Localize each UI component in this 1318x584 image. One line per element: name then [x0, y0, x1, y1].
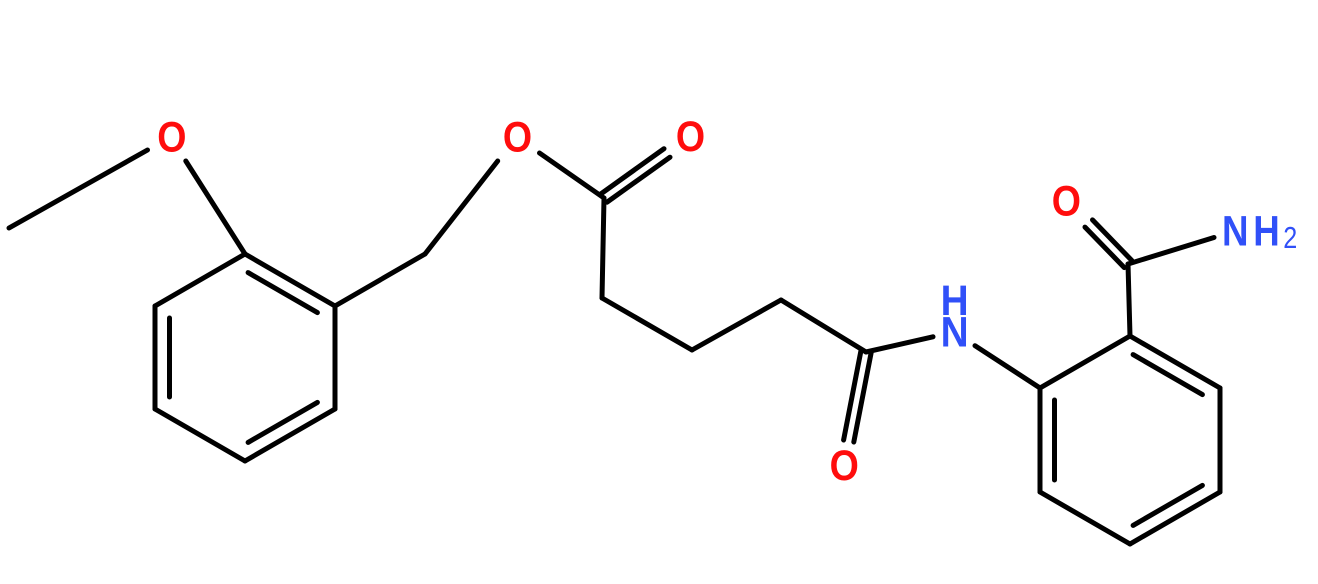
double bond inner J7-J6 — [248, 402, 317, 442]
wire ring2 edge R3-R4 — [1218, 388, 1223, 492]
double bond C=O amide — [844, 351, 861, 440]
svg-text:O: O — [503, 115, 532, 162]
bond O-C aryl (methoxy) — [186, 161, 245, 254]
bond ring1-CH2 benzyl — [335, 254, 425, 306]
double bond inner J2-J5 — [167, 318, 172, 397]
wire ring1 edge J5-J6 — [155, 409, 245, 461]
double bond inner J1-J3 — [248, 273, 317, 313]
bond C2-C3 — [602, 198, 604, 298]
wire ring2 edge R6-R1 — [1038, 388, 1043, 492]
wire ring2 edge R2-R3 — [1130, 336, 1220, 388]
wire ring1 edge J7-J6 — [245, 409, 335, 461]
bond C-N amide — [866, 337, 933, 352]
svg-text:H: H — [1253, 209, 1280, 256]
bond N-C aryl — [975, 346, 1040, 388]
double bond C2=O carbonyl — [607, 157, 670, 202]
bond CH2-O ester — [425, 161, 498, 254]
svg-text:N: N — [1222, 209, 1249, 256]
bond C3-CH2 — [602, 298, 692, 350]
bond CH2-CH2 — [692, 300, 781, 350]
svg-text:2: 2 — [1283, 220, 1297, 255]
bond C-NH2 — [1128, 238, 1214, 265]
bond O-C2 ester — [540, 153, 605, 198]
svg-text:O: O — [676, 114, 705, 161]
svg-text:O: O — [830, 443, 859, 490]
bond CH2-C amide — [781, 300, 866, 352]
double bond inner R4-R5 — [1133, 485, 1202, 525]
bond ring2-C benzamide — [1128, 264, 1130, 336]
double bond inner R6-R1 — [1052, 400, 1057, 480]
wire ring1 edge J3-J7 — [333, 306, 338, 409]
bond CH3-O (methoxy methyl) — [9, 150, 148, 228]
svg-text:O: O — [157, 115, 186, 162]
wire ring1 edge J1-J3 — [245, 254, 335, 306]
wire ring2 edge R4-R5 — [1130, 492, 1220, 544]
wire ring2 edge R1-R2 — [1040, 336, 1130, 388]
svg-text:O: O — [1052, 178, 1081, 225]
wire ring1 edge J2-J5 — [153, 306, 158, 409]
double bond inner R2-R3 — [1133, 355, 1202, 395]
double bond C=O benzamide — [1093, 220, 1132, 261]
svg-text:N: N — [941, 310, 969, 357]
wire ring1 edge J1-J2 — [155, 254, 245, 306]
wire ring2 edge R5-R6 — [1040, 492, 1130, 544]
